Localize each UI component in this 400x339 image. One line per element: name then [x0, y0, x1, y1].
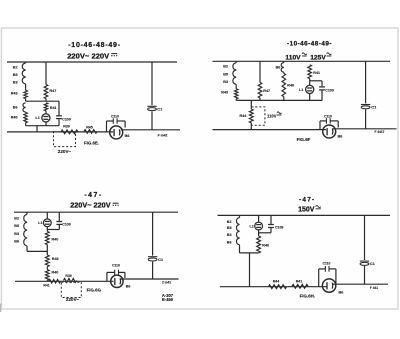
svg-text:B2: B2 — [13, 65, 18, 69]
svg-text:F 441: F 441 — [370, 286, 378, 290]
svg-text:E-459: E-459 — [162, 297, 174, 302]
svg-text:B3: B3 — [227, 233, 232, 237]
svg-text:C1: C1 — [370, 261, 376, 266]
svg-text:B6: B6 — [227, 240, 232, 244]
svg-text:110V: 110V — [285, 54, 301, 61]
svg-text:FIG.6G: FIG.6G — [87, 287, 102, 292]
svg-text:R40: R40 — [262, 243, 269, 247]
svg-text:C110: C110 — [111, 115, 119, 119]
svg-text:C109: C109 — [62, 117, 70, 121]
svg-text:110V: 110V — [267, 113, 277, 118]
svg-text:B5: B5 — [227, 226, 232, 230]
svg-text:R39: R39 — [63, 125, 70, 129]
svg-text:R47: R47 — [50, 89, 57, 93]
svg-text:C1: C1 — [158, 257, 164, 262]
svg-text:R41: R41 — [43, 284, 49, 288]
svg-text:R44: R44 — [273, 279, 280, 283]
svg-text:C109: C109 — [62, 223, 70, 227]
svg-text:150V: 150V — [298, 207, 315, 214]
svg-text:B5: B5 — [14, 224, 19, 228]
svg-text:R43: R43 — [11, 91, 18, 95]
svg-text:B2: B2 — [227, 220, 232, 224]
svg-text:R45: R45 — [86, 125, 93, 129]
svg-text:220V~ 220V: 220V~ 220V — [67, 51, 110, 60]
svg-text:R44: R44 — [240, 114, 248, 118]
svg-text:220V~: 220V~ — [58, 149, 72, 154]
svg-text:C1: C1 — [157, 107, 163, 112]
svg-text:FIG.6F: FIG.6F — [297, 137, 311, 142]
svg-text:B5: B5 — [13, 73, 18, 77]
svg-text:R43: R43 — [52, 257, 59, 261]
svg-text:-10-46-48-49-: -10-46-48-49- — [287, 40, 332, 47]
svg-text:B6: B6 — [338, 134, 343, 138]
svg-text:B3: B3 — [14, 232, 19, 236]
svg-text:C1: C1 — [371, 105, 377, 110]
svg-text:220V~ 220V: 220V~ 220V — [70, 201, 111, 210]
svg-text:B6: B6 — [276, 65, 281, 69]
svg-text:B6: B6 — [125, 134, 130, 138]
svg-text:F m42: F m42 — [158, 133, 168, 137]
svg-text:B6: B6 — [13, 106, 18, 110]
svg-text:-47-: -47- — [299, 197, 315, 204]
svg-text:L1: L1 — [35, 116, 39, 120]
svg-text:B6: B6 — [14, 240, 19, 244]
svg-text:F 4417: F 4417 — [375, 130, 385, 134]
svg-text:R47: R47 — [263, 89, 270, 93]
svg-text:C109: C109 — [325, 89, 333, 93]
svg-text:B2: B2 — [14, 216, 19, 220]
svg-text:B2: B2 — [223, 65, 228, 69]
svg-text:-10-46-48-49-: -10-46-48-49- — [68, 42, 121, 49]
svg-text:-47-: -47- — [84, 192, 102, 199]
svg-text:R41: R41 — [296, 279, 303, 283]
svg-text:R41: R41 — [50, 106, 57, 110]
svg-text:220V~: 220V~ — [66, 297, 80, 302]
svg-text:B6: B6 — [339, 291, 344, 295]
svg-text:L1: L1 — [299, 88, 303, 92]
svg-text:B6: B6 — [126, 284, 131, 288]
svg-text:C109: C109 — [275, 226, 283, 230]
svg-text:R41: R41 — [313, 71, 320, 75]
svg-text:R40: R40 — [52, 237, 59, 241]
svg-text:C110: C110 — [112, 263, 120, 267]
svg-text:R43: R43 — [221, 91, 228, 95]
svg-text:FIG.6E.: FIG.6E. — [84, 141, 99, 146]
svg-text:B5: B5 — [223, 72, 228, 76]
svg-text:R40: R40 — [287, 84, 294, 88]
svg-text:R40: R40 — [52, 271, 59, 275]
svg-text:R39: R39 — [65, 274, 71, 278]
svg-text:C110: C110 — [323, 262, 331, 266]
svg-text:L1: L1 — [38, 221, 42, 225]
svg-text:C110: C110 — [324, 114, 332, 118]
svg-text:L1: L1 — [249, 225, 253, 229]
svg-text:125V: 125V — [310, 54, 326, 61]
svg-text:R40: R40 — [11, 116, 18, 120]
svg-text:B3: B3 — [223, 80, 228, 84]
svg-text:2 m41: 2 m41 — [162, 281, 171, 285]
svg-text:B3: B3 — [13, 81, 18, 85]
svg-text:FIG.6H.: FIG.6H. — [300, 294, 315, 299]
